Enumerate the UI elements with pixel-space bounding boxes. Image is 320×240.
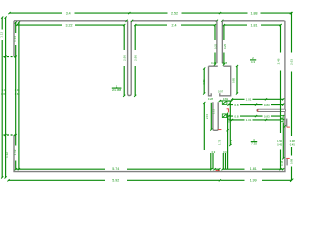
red radiator 1 bbox=[286, 119, 288, 127]
svg-text:2.46: 2.46 bbox=[277, 58, 281, 64]
window tick row y56.6 bbox=[3, 56, 15, 58]
wall1 flank dim x135.2 bbox=[134, 25, 136, 96]
bottom dim B y180.3 bbox=[9, 179, 292, 181]
svg-text:1.88: 1.88 bbox=[251, 11, 258, 15]
svg-text:1.50: 1.50 bbox=[277, 139, 283, 143]
svg-text:2.15: 2.15 bbox=[205, 113, 209, 119]
svg-text:1.81: 1.81 bbox=[251, 23, 258, 27]
svg-text:0.45: 0.45 bbox=[290, 142, 296, 146]
svg-text:1.01: 1.01 bbox=[246, 98, 252, 102]
svg-text:1.13: 1.13 bbox=[13, 36, 17, 42]
svg-text:2.52: 2.52 bbox=[171, 11, 178, 15]
svg-text:1.12: 1.12 bbox=[13, 149, 17, 155]
svg-text:1.12: 1.12 bbox=[5, 152, 9, 158]
svg-text:5.92: 5.92 bbox=[112, 178, 119, 182]
hall door bar bbox=[257, 109, 286, 111]
svg-text:1.73: 1.73 bbox=[218, 139, 222, 145]
svg-text:2.63: 2.63 bbox=[289, 59, 293, 65]
left dim line x2.8 bbox=[1, 18, 3, 178]
svg-text:0.69: 0.69 bbox=[223, 97, 229, 101]
bottom dim A y169.2 bbox=[16, 168, 284, 170]
window tick row y135 bbox=[3, 134, 15, 136]
svg-text:7.35: 7.35 bbox=[251, 141, 257, 145]
svg-text:0.85: 0.85 bbox=[232, 77, 236, 83]
svg-text:1.15: 1.15 bbox=[212, 108, 216, 114]
svg-text:1.81: 1.81 bbox=[250, 167, 257, 171]
green x230.3 bbox=[229, 101, 231, 145]
green x227.6 bbox=[227, 113, 229, 170]
svg-text:0.28: 0.28 bbox=[211, 61, 217, 65]
svg-text:0.83: 0.83 bbox=[264, 114, 270, 118]
svg-text:0.98: 0.98 bbox=[290, 139, 296, 143]
long green x204.4 bbox=[203, 69, 205, 151]
left inner dim x18.8 bbox=[18, 22, 20, 169]
wall1 flank dim x124.2 bbox=[123, 25, 125, 96]
right small green boxes bbox=[281, 116, 283, 119]
wall2 flank dim x224.6 bbox=[223, 25, 225, 64]
red bath bottom seg bbox=[218, 129, 221, 131]
interior wall W2 stubs bbox=[217, 21, 222, 64]
svg-text:0.15: 0.15 bbox=[280, 160, 284, 166]
second dimension line y25 bbox=[17, 24, 281, 26]
svg-text:2.96: 2.96 bbox=[122, 55, 126, 61]
bottom wall bbox=[13, 171, 285, 173]
junction ticks bbox=[126, 20, 224, 22]
red door bottom wall bbox=[216, 170, 220, 172]
svg-text:5.74: 5.74 bbox=[112, 167, 119, 171]
svg-text:2.73: 2.73 bbox=[229, 139, 233, 145]
svg-text:0.97: 0.97 bbox=[218, 90, 224, 94]
hall dim row1 y99.3 bbox=[232, 98, 283, 100]
wall2 flank dim x214 bbox=[214, 25, 216, 64]
right outer dim x291.5 bbox=[291, 13, 293, 180]
svg-text:0.8: 0.8 bbox=[234, 103, 239, 107]
svg-text:1.01: 1.01 bbox=[246, 118, 252, 122]
hall dim row4 y119.9 bbox=[229, 119, 284, 121]
svg-text:1.99: 1.99 bbox=[250, 178, 257, 182]
red bath door bbox=[227, 109, 229, 113]
vent boxes bbox=[222, 101, 227, 105]
svg-text:0.9: 0.9 bbox=[212, 150, 216, 154]
svg-text:0.65: 0.65 bbox=[1, 92, 7, 96]
svg-text:0.25: 0.25 bbox=[214, 43, 218, 49]
red cap of hall bar bbox=[257, 109, 260, 111]
svg-text:1.06: 1.06 bbox=[15, 88, 21, 92]
interior wall W1 left line bbox=[128, 21, 132, 96]
svg-text:0.98: 0.98 bbox=[289, 158, 293, 164]
shaft outline bbox=[209, 66, 231, 96]
bath green vertical x211.3 bbox=[210, 103, 212, 130]
svg-text:0.8: 0.8 bbox=[234, 114, 239, 118]
svg-text:2.4: 2.4 bbox=[172, 23, 177, 27]
svg-text:0.83: 0.83 bbox=[264, 103, 270, 107]
top wall bbox=[14, 20, 285, 22]
svg-text:21.88: 21.88 bbox=[112, 88, 122, 92]
svg-text:0.28: 0.28 bbox=[222, 61, 228, 65]
hall dim row2 y104.6 bbox=[229, 104, 284, 106]
svg-text:1.12: 1.12 bbox=[0, 32, 4, 38]
svg-text:2.96: 2.96 bbox=[133, 55, 137, 61]
shaft right flank dim x237 bbox=[236, 66, 238, 94]
left wall upper bbox=[13, 21, 15, 57]
svg-text:1.62: 1.62 bbox=[15, 92, 21, 96]
svg-text:0.9: 0.9 bbox=[223, 150, 227, 154]
svg-text:3.4: 3.4 bbox=[66, 11, 71, 15]
svg-text:4.3: 4.3 bbox=[251, 60, 256, 64]
right short green x283.3 bbox=[282, 123, 284, 159]
svg-text:0.25: 0.25 bbox=[223, 43, 227, 49]
svg-text:0.28: 0.28 bbox=[208, 97, 214, 101]
bathroom U wall bbox=[213, 102, 218, 130]
svg-text:3.22: 3.22 bbox=[66, 23, 73, 27]
top dimension line y13 bbox=[10, 12, 291, 14]
right dim x280.5 bbox=[280, 25, 282, 169]
left dim line x6.2 bbox=[5, 18, 7, 178]
red radiator 2 bbox=[286, 157, 290, 159]
left wall lower bbox=[13, 135, 15, 172]
left inner dim x16.6 bbox=[15, 22, 17, 169]
right wall bbox=[284, 21, 286, 172]
hall dim row3 y116.1 bbox=[229, 115, 284, 117]
bottom door verticals bbox=[211, 153, 226, 169]
svg-text:0.45: 0.45 bbox=[277, 142, 283, 146]
svg-text:0.1: 0.1 bbox=[2, 88, 6, 92]
